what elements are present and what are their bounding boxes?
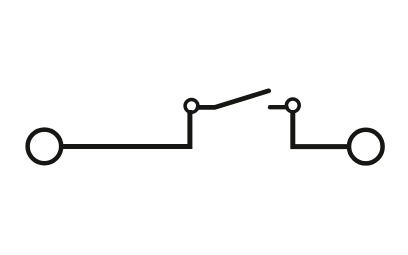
switch blade (open) xyxy=(198,91,269,108)
terminal circle left xyxy=(28,130,62,164)
fixed contact stub xyxy=(270,105,287,109)
terminal circle right xyxy=(349,130,383,164)
pivot contact circle xyxy=(185,100,198,113)
right contact circle xyxy=(286,99,299,112)
wire from left terminal up to switch pivot xyxy=(62,110,190,147)
wire from right contact down to right terminal xyxy=(293,111,348,147)
